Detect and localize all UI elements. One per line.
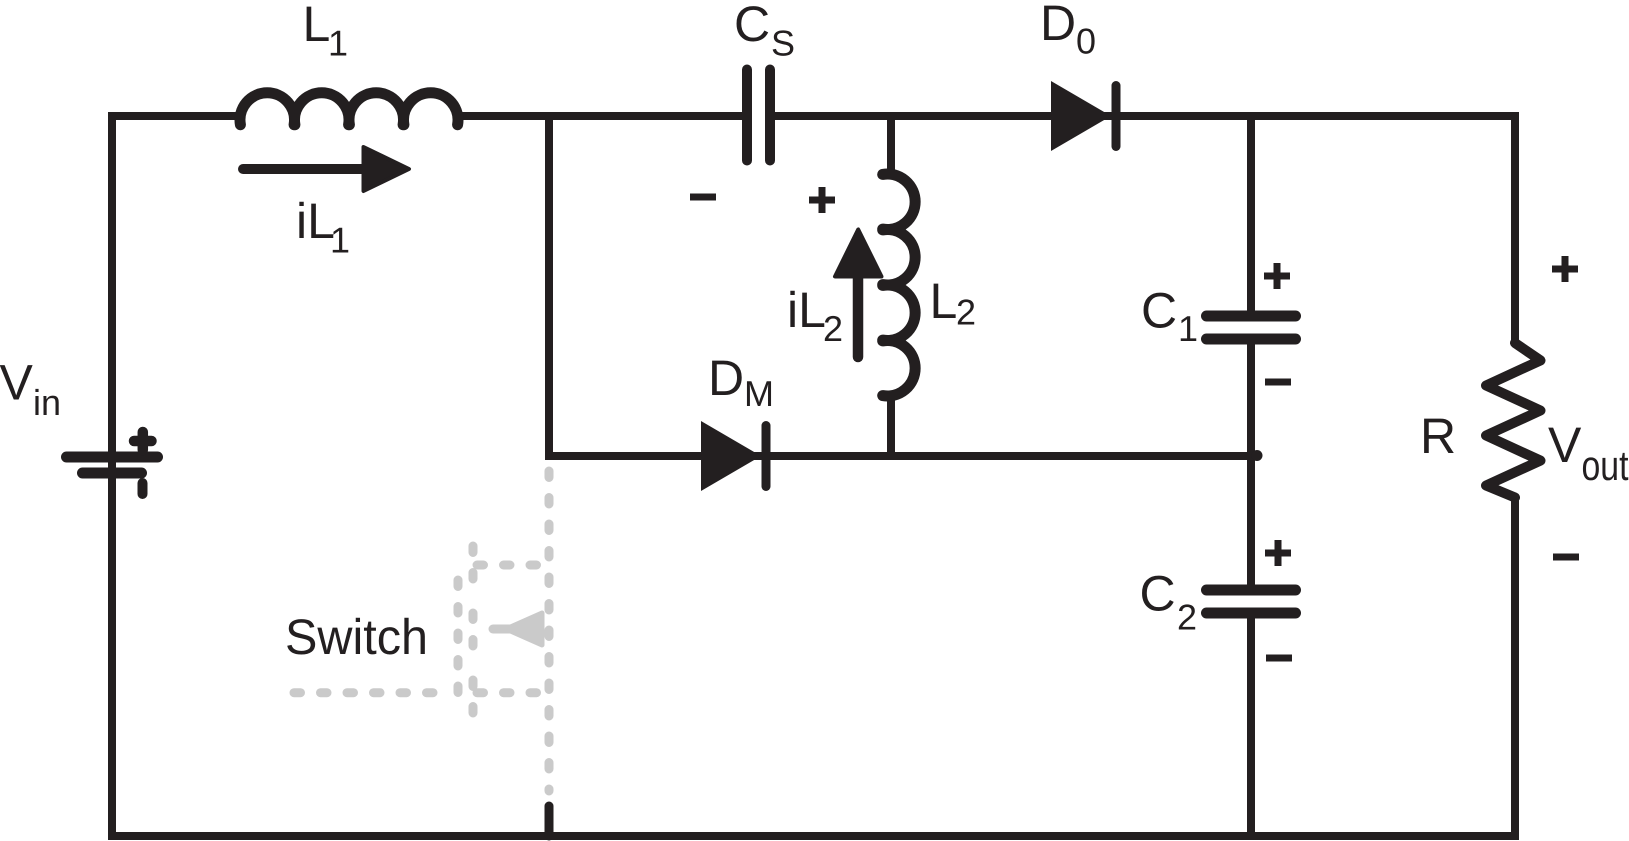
svg-text:R: R <box>1420 408 1456 464</box>
svg-text:1: 1 <box>330 220 350 261</box>
drain connection horizontal <box>477 561 544 570</box>
label C2 <box>1140 566 1176 622</box>
wire C branch lower <box>1247 618 1255 836</box>
wire left-bottom-right loop <box>112 116 1515 836</box>
body diode arrow <box>506 613 542 645</box>
svg-text:S: S <box>771 23 795 64</box>
label iL1 <box>296 193 335 249</box>
capacitor C1 <box>1207 311 1296 322</box>
svg-text:Switch: Switch <box>285 609 428 665</box>
drain-source vertical wire <box>545 471 554 791</box>
wire switch branch vertical <box>545 112 553 460</box>
svg-text:L: L <box>303 0 331 52</box>
channel stub drain <box>469 546 478 580</box>
svg-text:1: 1 <box>328 23 348 64</box>
svg-text:C: C <box>1141 283 1177 339</box>
wire middle horizontal <box>545 452 1251 460</box>
svg-text:V: V <box>0 355 34 411</box>
svg-text:V: V <box>1548 417 1582 473</box>
source connection horizontal <box>477 688 544 697</box>
battery Vin <box>67 452 158 463</box>
wire switch source solid stub <box>545 806 554 836</box>
current arrow iL2 <box>853 278 864 357</box>
label Vin <box>0 355 34 411</box>
transistor Q1 switch (dashed gray MOSFET) <box>294 471 549 791</box>
label Vout <box>1548 417 1582 473</box>
svg-text:0: 0 <box>1076 21 1096 62</box>
label Switch <box>285 609 428 665</box>
battery minus sign <box>138 483 148 494</box>
capacitor CS <box>742 70 752 161</box>
wire top-right segment <box>770 116 1515 345</box>
CS plus sign <box>809 187 835 213</box>
label DM <box>708 350 744 406</box>
gate bar <box>454 580 463 701</box>
svg-text:L: L <box>930 273 958 329</box>
Vout plus sign <box>1552 256 1578 282</box>
C2 plus sign <box>1265 540 1291 566</box>
svg-text:1: 1 <box>1178 308 1198 349</box>
diode D0 <box>1051 81 1111 151</box>
svg-text:C: C <box>734 0 770 52</box>
C1 minus sign <box>1265 379 1291 386</box>
C1 plus sign <box>1264 263 1290 289</box>
label L1 <box>303 0 331 52</box>
wire C branch upper <box>1247 116 1255 311</box>
channel stub source <box>469 680 478 714</box>
CS minus sign <box>690 194 716 201</box>
svg-text:C: C <box>1140 566 1176 622</box>
gate wire horizontal <box>294 688 452 697</box>
label L2 <box>930 273 958 329</box>
wire L2 bottom stub <box>887 394 895 460</box>
label C1 <box>1141 283 1177 339</box>
svg-text:2: 2 <box>823 308 843 349</box>
inductor L1 <box>240 93 458 125</box>
label D0 <box>1040 0 1076 51</box>
svg-text:D: D <box>1040 0 1076 51</box>
label R <box>1420 408 1456 464</box>
wire L2 top stub <box>887 116 895 176</box>
svg-text:iL: iL <box>787 282 826 338</box>
svg-text:M: M <box>744 373 774 414</box>
current arrow iL1 <box>243 164 363 174</box>
label CS <box>734 0 770 52</box>
capacitor C2 <box>1207 585 1296 596</box>
svg-text:2: 2 <box>956 292 976 333</box>
node junction dot middle wire / C branch <box>1252 450 1263 461</box>
wire top-middle segment <box>454 112 745 120</box>
svg-text:2: 2 <box>1177 597 1197 638</box>
inductor L2 <box>883 174 915 396</box>
wire C branch middle <box>1247 344 1255 585</box>
diode DM <box>701 421 761 491</box>
svg-text:D: D <box>708 350 744 406</box>
battery plus sign <box>134 432 152 450</box>
channel stub body <box>469 613 478 647</box>
C2 minus sign <box>1266 655 1292 662</box>
resistor R <box>1486 343 1541 498</box>
svg-text:out: out <box>1582 442 1629 489</box>
label iL2 <box>787 282 826 338</box>
Vout minus sign <box>1553 554 1579 561</box>
svg-text:in: in <box>33 382 61 423</box>
